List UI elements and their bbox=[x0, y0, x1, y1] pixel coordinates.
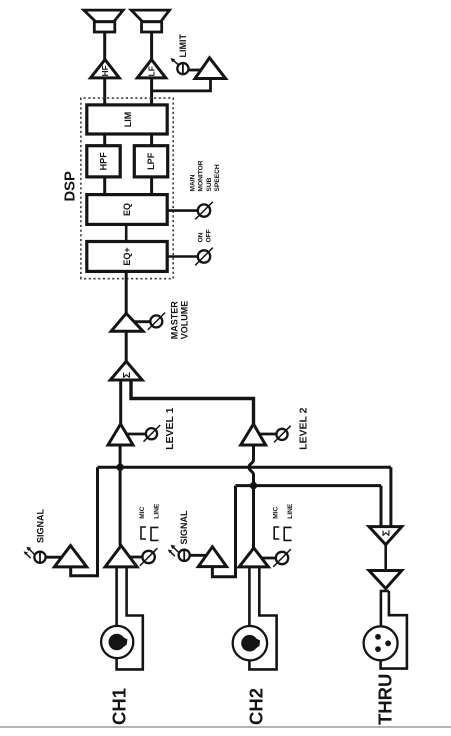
svg-text:EQ: EQ bbox=[122, 203, 132, 216]
amplifier CH2 signal bbox=[198, 547, 226, 567]
amplifier CH1 preamp bbox=[105, 546, 137, 567]
summing amp main bbox=[110, 361, 142, 380]
wire master pot bbox=[134, 320, 151, 323]
svg-text:LIM: LIM bbox=[123, 112, 133, 128]
block HPF bbox=[87, 146, 120, 177]
wire level2 input with hop bbox=[249, 445, 254, 486]
svg-text:SIGNAL: SIGNAL bbox=[36, 508, 46, 543]
page edge rule bbox=[0, 726, 451, 728]
wire thru sigma to buffer bbox=[384, 545, 387, 571]
svg-text:HF: HF bbox=[100, 65, 110, 76]
amplifier level1 bbox=[108, 424, 133, 445]
wire level1 to sigma bbox=[119, 380, 122, 424]
node CH1 junction bbox=[116, 464, 123, 471]
wire CH1 signal tap bbox=[71, 467, 98, 576]
LED CH1 signal bbox=[24, 547, 46, 563]
connector CH1 combo jack bbox=[101, 626, 133, 658]
wire LPF to LIM bbox=[150, 134, 153, 146]
DSP dashed box bbox=[81, 98, 173, 279]
wire LF amp to speaker bbox=[150, 32, 153, 61]
amplifier THRU buffer bbox=[369, 571, 402, 589]
wire bus2 to thru sigma bbox=[380, 486, 383, 527]
wire THRU connector upper bbox=[381, 591, 389, 626]
svg-text:LEVEL 2: LEVEL 2 bbox=[298, 407, 310, 450]
wire EQ pot bbox=[167, 209, 198, 212]
connector CH2 combo jack bbox=[233, 626, 267, 660]
wire CH1 LED bbox=[46, 556, 62, 559]
block EQ bbox=[87, 195, 167, 225]
node CH2 junction bbox=[250, 482, 257, 489]
wire CH1 gain pot bbox=[130, 556, 143, 559]
wire ON/OFF pot bbox=[167, 255, 198, 258]
pot EQ+ on/off bbox=[195, 248, 213, 266]
bus wire 1 bbox=[98, 466, 391, 469]
block EQ+ bbox=[87, 242, 167, 272]
speaker LF bbox=[131, 10, 169, 32]
switch icon CH2 mic bbox=[274, 527, 279, 539]
amplifier master volume bbox=[111, 313, 143, 331]
pot CH1 gain bbox=[140, 548, 158, 566]
wire level2 to sigma elbow bbox=[131, 380, 254, 424]
svg-text:LF: LF bbox=[147, 66, 157, 76]
LED CH2 signal bbox=[168, 545, 190, 561]
svg-text:MASTERVOLUME: MASTERVOLUME bbox=[170, 301, 190, 340]
svg-text:MICLINE: MICLINE bbox=[139, 503, 161, 519]
wire CH1 connector hot bbox=[115, 567, 118, 626]
bus wire 2 bbox=[236, 484, 382, 487]
wire THRU connector loop bbox=[381, 591, 407, 669]
wire CH2 LED bbox=[190, 554, 206, 557]
svg-text:Σ: Σ bbox=[381, 530, 393, 536]
svg-text:MICLINE: MICLINE bbox=[272, 503, 294, 519]
switch icon CH2 line bbox=[284, 527, 291, 540]
wire CH1 preamp to junction bbox=[119, 467, 122, 545]
amplifier HF bbox=[91, 60, 120, 78]
svg-text:DSP: DSP bbox=[63, 171, 79, 202]
wire CH1 connector loop bbox=[117, 567, 143, 670]
pot CH2 gain bbox=[273, 549, 291, 567]
svg-text:ONOFF: ONOFF bbox=[197, 229, 212, 242]
wire EQ to HPF bbox=[103, 177, 106, 195]
pot master volume bbox=[148, 313, 165, 330]
svg-text:LEVEL 1: LEVEL 1 bbox=[164, 407, 176, 450]
wire junction to level1 bbox=[119, 445, 122, 467]
svg-text:CH1: CH1 bbox=[109, 688, 130, 725]
wire CH2 preamp to junction bbox=[252, 486, 255, 548]
wire CH2 signal tap bbox=[212, 486, 235, 577]
wire limiter side-chain tap bbox=[152, 79, 211, 91]
pot level1 bbox=[144, 425, 161, 442]
svg-text:Σ: Σ bbox=[121, 372, 133, 378]
wire CH2 connector hot bbox=[248, 567, 251, 626]
switch icon CH1 mic bbox=[141, 527, 146, 539]
summing amp THRU bbox=[369, 527, 402, 545]
block LIM bbox=[87, 105, 167, 134]
amplifier limiter detector bbox=[195, 58, 226, 79]
svg-text:CH2: CH2 bbox=[245, 688, 266, 725]
pot EQ mode bbox=[195, 202, 213, 220]
svg-text:LIMIT: LIMIT bbox=[178, 34, 188, 58]
svg-text:HPF: HPF bbox=[99, 152, 109, 171]
wire bus1 to thru sigma bbox=[389, 467, 392, 526]
wire level1 pot bbox=[126, 433, 146, 436]
wire HF amp to speaker bbox=[103, 32, 106, 61]
amplifier CH1 signal bbox=[54, 546, 86, 567]
wire THRU buffer stub bbox=[384, 588, 387, 592]
wire CH2 connector loop bbox=[249, 567, 276, 670]
svg-text:THRU: THRU bbox=[374, 674, 395, 725]
wire master amp to EQ+ bbox=[125, 271, 128, 314]
wire EQ+ to EQ bbox=[125, 224, 128, 241]
amplifier LF bbox=[137, 60, 166, 78]
svg-text:MAINMONITORSUBSPEECH: MAINMONITORSUBSPEECH bbox=[190, 160, 222, 191]
wire sigma to master amp bbox=[125, 331, 128, 362]
amplifier CH2 preamp bbox=[239, 548, 268, 567]
wire CH2 gain pot bbox=[263, 557, 277, 560]
wire LIMIT pot to amp bbox=[189, 69, 202, 72]
wire level2 pot bbox=[260, 433, 277, 436]
wire EQ to LPF bbox=[150, 177, 153, 195]
pot level2 bbox=[274, 426, 291, 443]
switch icon CH1 line bbox=[151, 527, 158, 540]
svg-text:LPF: LPF bbox=[146, 152, 156, 170]
svg-text:EQ+: EQ+ bbox=[122, 247, 132, 265]
wire LIM to HF amp bbox=[103, 78, 106, 105]
pot LIMIT bbox=[170, 58, 188, 75]
amplifier level2 bbox=[241, 424, 266, 445]
speaker HF bbox=[84, 10, 123, 32]
wire LIM to LF amp bbox=[150, 78, 153, 105]
wire HPF to LIM bbox=[103, 134, 106, 146]
svg-text:SIGNAL: SIGNAL bbox=[179, 510, 189, 545]
block LPF bbox=[134, 146, 167, 177]
connector THRU xlr male bbox=[364, 626, 398, 660]
